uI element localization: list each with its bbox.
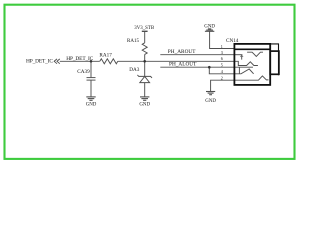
diode DA3 zener bar — [137, 75, 152, 78]
jack internal contact row4 — [234, 66, 253, 68]
jack internal contact row2 with detect arrow — [234, 54, 242, 56]
svg-text:2: 2 — [221, 76, 223, 81]
wire CA39 branch down — [90, 61, 92, 77]
wire junction to DA3 — [144, 61, 146, 76]
ground under CA39 — [86, 96, 95, 98]
ground top right — [208, 28, 211, 30]
svg-text:3: 3 — [221, 50, 223, 55]
svg-text:1: 1 — [221, 44, 223, 49]
jack internal contact row3 detect switch — [234, 61, 258, 65]
wire PH_AROUT — [160, 54, 234, 56]
junction node ALOUT jog — [208, 66, 211, 69]
wire RA15 to junction — [144, 54, 146, 61]
svg-text:GND: GND — [86, 102, 97, 107]
svg-text:DA3: DA3 — [129, 67, 139, 73]
ground under DA3 — [140, 96, 149, 98]
wire ALOUT jog to pin row 5 — [209, 67, 234, 74]
detect arrow head — [240, 55, 244, 57]
svg-text:5: 5 — [221, 63, 223, 68]
wire RA17 to mid junction — [118, 60, 145, 62]
svg-text:RA17: RA17 — [99, 53, 112, 59]
svg-text:PH_AROUT: PH_AROUT — [168, 49, 196, 55]
wire HP_DET to connector pin 6 — [145, 60, 235, 62]
svg-text:HP_DET_IC: HP_DET_IC — [66, 56, 93, 62]
power 3V3_STB bar — [142, 30, 148, 32]
wire top GND to pin row 1 — [210, 31, 235, 48]
wire HP_DET_IC main horizontal — [60, 60, 100, 62]
ground bottom right — [206, 91, 215, 93]
connector CN14 body — [234, 44, 279, 85]
resistor RA17 — [100, 59, 118, 64]
svg-text:HP_DET_IC: HP_DET_IC — [26, 59, 53, 65]
resistor RA15 — [142, 43, 147, 55]
wire pin row 6 to bottom ground — [211, 80, 235, 91]
svg-text:GND: GND — [204, 24, 215, 29]
svg-text:CN14: CN14 — [226, 38, 239, 44]
capacitor CA39 — [87, 77, 96, 79]
svg-text:RA15: RA15 — [127, 39, 139, 44]
svg-text:PH_ALOUT: PH_ALOUT — [169, 62, 197, 68]
connector HP_DET_IC off-page chevron — [54, 59, 60, 64]
svg-text:CA39: CA39 — [77, 69, 90, 75]
svg-text:GND: GND — [139, 102, 150, 107]
diode DA3 triangle — [140, 76, 150, 82]
svg-text:6: 6 — [221, 56, 223, 61]
jack internal contact row6 sleeve spring — [234, 76, 268, 80]
svg-text:GND: GND — [205, 99, 216, 104]
svg-text:3V3_STB: 3V3_STB — [134, 26, 155, 31]
green selection border — [5, 5, 295, 159]
jack tip spring contact — [247, 52, 263, 56]
junction node HP_DET/CA39 — [90, 60, 93, 63]
wire PH_ALOUT — [160, 66, 234, 68]
jack internal row4 to row5 link — [238, 67, 240, 74]
junction node RA15/DA3 — [143, 60, 146, 63]
jack internal contact row5 spring — [234, 69, 253, 74]
